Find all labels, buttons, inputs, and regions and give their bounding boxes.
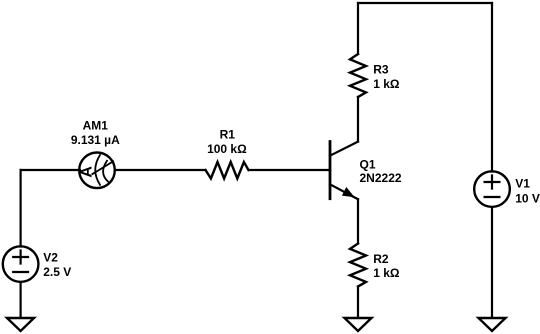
svg-text:9.131 µA: 9.131 µA [71, 133, 120, 147]
wire collector column top [357, 3, 359, 54]
svg-text:R1: R1 [220, 127, 236, 141]
svg-text:R2: R2 [373, 252, 389, 266]
wire top rail [358, 2, 492, 4]
svg-text:2.5 V: 2.5 V [43, 265, 71, 279]
wire emitter to R2 [357, 199, 359, 243]
ground (left) [7, 318, 34, 331]
resistor R1 [206, 162, 249, 179]
svg-text:1 kΩ: 1 kΩ [373, 266, 400, 280]
wire right column [491, 3, 493, 172]
transistor Q1 emitter arrow [343, 188, 354, 197]
voltage source V2 [3, 246, 39, 282]
wire V2 to ground [20, 282, 22, 317]
transistor Q1 emitter diagonal [330, 184, 358, 199]
svg-text:A: A [79, 166, 96, 178]
wire V1 to ground [491, 208, 493, 318]
svg-text:V1: V1 [515, 176, 530, 190]
wire R2 to ground [357, 287, 359, 318]
transistor Q1 collector diagonal [330, 142, 358, 156]
resistor R3 [350, 54, 366, 97]
svg-text:10 V: 10 V [515, 192, 540, 206]
svg-text:1 kΩ: 1 kΩ [373, 77, 400, 91]
transistor Q1 base bar [329, 142, 332, 199]
svg-text:2N2222: 2N2222 [360, 171, 402, 185]
svg-text:R3: R3 [373, 62, 389, 76]
wire left column [20, 170, 22, 247]
svg-text:100 kΩ: 100 kΩ [207, 142, 247, 156]
svg-text:Q1: Q1 [360, 157, 376, 171]
wire R1 to base [249, 169, 331, 171]
wire ammeter to R1 [115, 169, 206, 171]
ground (right) [479, 318, 506, 331]
wire R3 to collector corner [357, 97, 359, 142]
wire left corner to ammeter [21, 169, 80, 171]
svg-text:AM1: AM1 [83, 119, 109, 133]
resistor R2 [350, 244, 366, 287]
ammeter AM1 [79, 153, 115, 189]
svg-text:V2: V2 [43, 251, 58, 265]
ground (middle) [345, 318, 372, 331]
voltage source V1 [474, 171, 510, 207]
